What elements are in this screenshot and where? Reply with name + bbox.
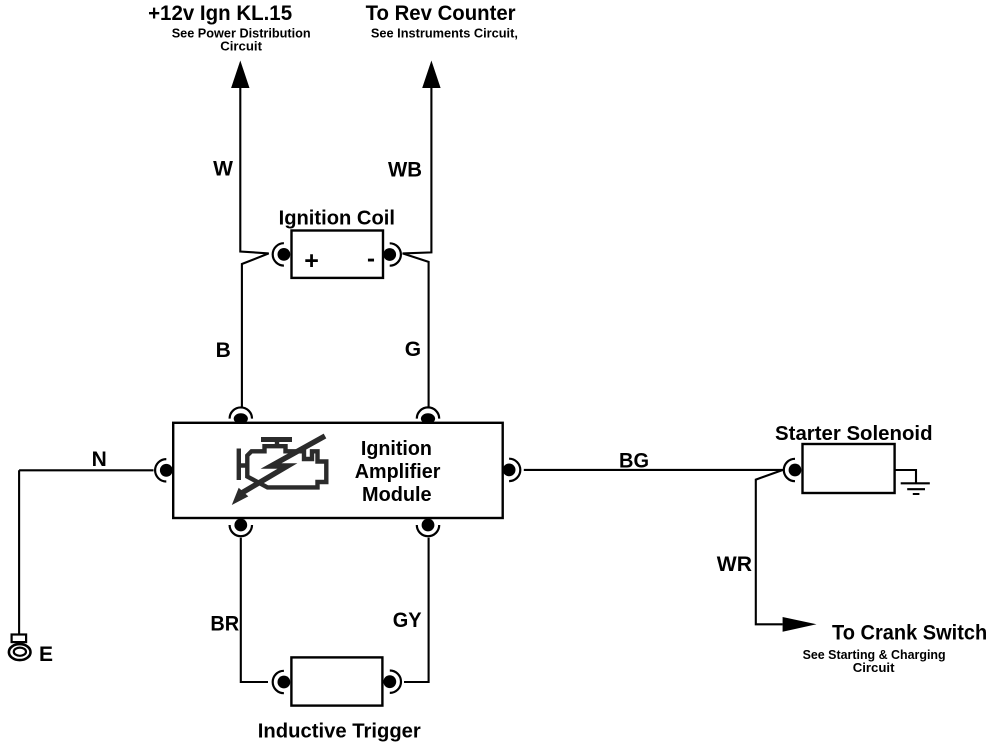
svg-text:GY: GY: [393, 609, 422, 632]
svg-text:+: +: [304, 247, 319, 275]
svg-text:Inductive Trigger: Inductive Trigger: [258, 720, 421, 743]
svg-text:Ignition Coil: Ignition Coil: [279, 207, 395, 230]
svg-text:-: -: [367, 246, 375, 273]
svg-text:B: B: [216, 339, 231, 362]
svg-text:BR: BR: [210, 612, 239, 635]
svg-text:Circuit: Circuit: [853, 660, 895, 675]
svg-text:To Crank Switch: To Crank Switch: [832, 621, 987, 645]
svg-text:+12v Ign KL.15: +12v Ign KL.15: [148, 1, 292, 25]
svg-text:Module: Module: [362, 483, 432, 506]
svg-text:To Rev Counter: To Rev Counter: [366, 1, 517, 25]
svg-text:Starter Solenoid: Starter Solenoid: [775, 422, 933, 445]
svg-text:G: G: [405, 338, 421, 361]
svg-text:N: N: [92, 448, 107, 471]
svg-text:BG: BG: [619, 450, 649, 473]
svg-text:W: W: [213, 157, 233, 180]
svg-text:WR: WR: [717, 553, 752, 576]
svg-text:WB: WB: [388, 159, 422, 182]
svg-text:Circuit: Circuit: [220, 38, 262, 53]
svg-text:Amplifier: Amplifier: [355, 460, 441, 483]
svg-text:E: E: [39, 643, 53, 666]
svg-text:See Instruments Circuit,: See Instruments Circuit,: [371, 25, 518, 40]
svg-text:Ignition: Ignition: [361, 437, 432, 460]
